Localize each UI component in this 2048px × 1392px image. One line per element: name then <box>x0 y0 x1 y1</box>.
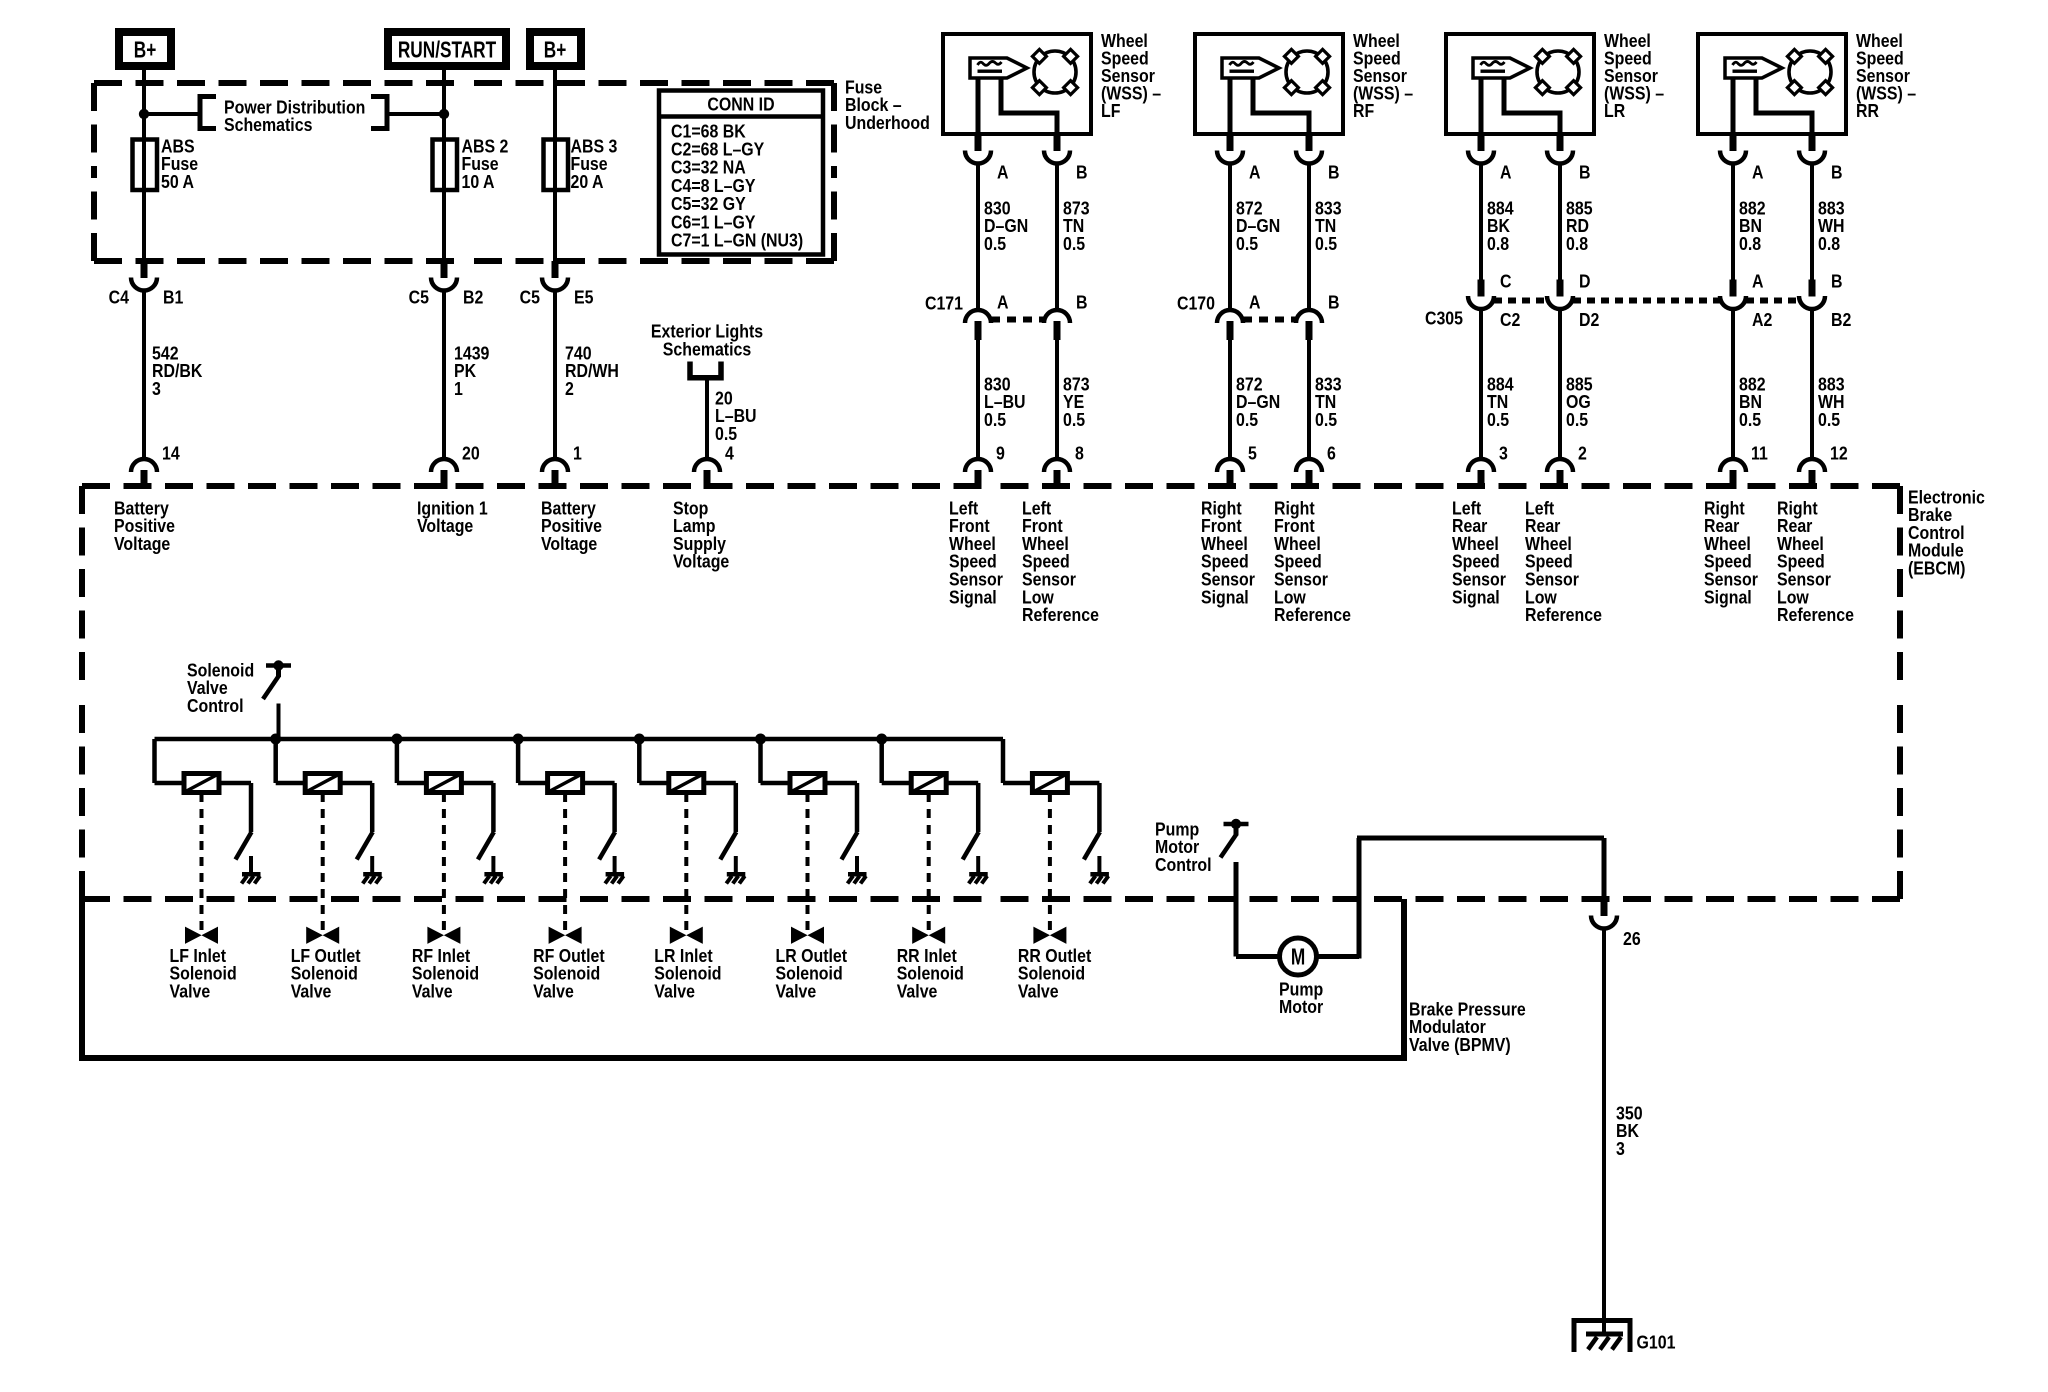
svg-text:0.5: 0.5 <box>984 409 1006 430</box>
node label: RR wheel speed sensor signal <box>1704 497 1758 607</box>
wire from solenoid valve control switch to bus <box>277 704 281 740</box>
svg-text:B1: B1 <box>163 286 184 307</box>
svg-text:LR: LR <box>1604 100 1626 121</box>
svg-text:0.5: 0.5 <box>1315 233 1337 254</box>
label: RR Inlet Solenoid Valve <box>897 945 964 1002</box>
ground at RR Inlet driver <box>969 856 988 884</box>
solenoid coil LF Inlet <box>184 774 219 793</box>
node label: LF wheel speed sensor low reference <box>1022 497 1099 625</box>
off-page reference brackets: Power Distribution Schematics <box>200 96 387 135</box>
dashed wire from LR Outlet coil to valve <box>806 793 810 933</box>
power terminal RUN/START <box>388 32 506 66</box>
dashed wire from RF Outlet coil to valve <box>563 793 567 933</box>
solenoid coil LR Outlet <box>790 774 825 793</box>
EBCM pin 9 connector <box>965 442 1005 489</box>
svg-text:26: 26 <box>1623 928 1641 949</box>
wire branch to LR Inlet solenoid coil <box>639 739 669 783</box>
svg-text:1: 1 <box>573 442 582 463</box>
svg-text:2: 2 <box>565 378 574 399</box>
connector pin A below WSS-LR <box>1468 134 1511 183</box>
wire ABS 3 fuse to connector C5 <box>553 190 557 261</box>
svg-text:Voltage: Voltage <box>417 515 473 536</box>
ground at LF Outlet driver <box>363 856 382 884</box>
svg-text:A: A <box>1752 270 1763 291</box>
svg-text:0.5: 0.5 <box>1739 409 1761 430</box>
svg-text:1: 1 <box>454 378 463 399</box>
solenoid coil RR Inlet <box>911 774 946 793</box>
valve symbol LR Inlet solenoid valve <box>670 928 702 944</box>
label: Pump Motor Control <box>1155 818 1212 875</box>
svg-text:C171: C171 <box>925 292 963 313</box>
svg-text:3: 3 <box>152 378 161 399</box>
svg-text:Control: Control <box>1155 854 1212 875</box>
svg-text:20 A: 20 A <box>571 171 604 192</box>
wire ABS 2 fuse to connector C5 <box>442 190 446 261</box>
wire 872 D–GN to pin 5 <box>1230 339 1280 459</box>
wire branch to LR Outlet solenoid coil <box>761 739 791 783</box>
svg-text:0.8: 0.8 <box>1566 233 1588 254</box>
switch blade LR Outlet driver <box>842 832 858 860</box>
svg-text:LF: LF <box>1101 100 1120 121</box>
svg-text:(EBCM): (EBCM) <box>1908 557 1965 578</box>
svg-text:Valve: Valve <box>654 980 695 1001</box>
svg-text:8: 8 <box>1075 442 1084 463</box>
svg-text:Reference: Reference <box>1777 604 1854 625</box>
wire from RUN/START to ABS 2 fuse <box>442 66 446 140</box>
svg-text:B+: B+ <box>544 38 567 63</box>
EBCM pin 12 connector <box>1799 442 1848 489</box>
node label: LR wheel speed sensor signal <box>1452 497 1506 607</box>
svg-text:Motor: Motor <box>1279 996 1323 1017</box>
wire from LR Outlet coil to driver switch <box>825 783 857 832</box>
connector C305 pin C/C2 <box>1468 270 1520 330</box>
label: RR Outlet Solenoid Valve <box>1018 945 1092 1002</box>
pump motor M <box>1280 938 1317 975</box>
wire branch to RF Outlet solenoid coil <box>518 739 548 783</box>
wire 20 L-BU 0.5 (stop lamp supply) <box>707 380 757 459</box>
svg-text:A: A <box>997 291 1008 312</box>
switch blade RF Inlet driver <box>478 832 494 860</box>
wire 883 WH from WSS-RR B <box>1812 163 1845 280</box>
switch blade RR Inlet driver <box>963 832 979 860</box>
svg-text:Valve: Valve <box>412 980 453 1001</box>
switch blade RR Outlet driver <box>1084 832 1100 860</box>
wire branch to RR Outlet solenoid coil <box>1003 739 1032 783</box>
valve symbol LR Outlet solenoid valve <box>792 928 824 944</box>
wire 830 D–GN from WSS-LF A <box>978 163 1028 310</box>
svg-text:0.5: 0.5 <box>715 423 737 444</box>
label: LF Inlet Solenoid Valve <box>170 945 237 1002</box>
node label: Battery Positive Voltage <box>114 497 175 554</box>
svg-text:0.5: 0.5 <box>984 233 1006 254</box>
connector pin B below WSS-LR <box>1547 134 1590 183</box>
svg-text:C5: C5 <box>409 286 430 307</box>
svg-text:A: A <box>1752 161 1763 182</box>
connector C4/B1 at fuse block output <box>109 261 184 308</box>
svg-text:6: 6 <box>1327 442 1336 463</box>
wheel speed sensor WSS-RF <box>1195 34 1343 134</box>
svg-text:Control: Control <box>187 695 244 716</box>
wire 883 WH to pin 12 <box>1812 308 1845 459</box>
dashed wire from LF Inlet coil to valve <box>200 793 204 933</box>
svg-text:0.5: 0.5 <box>1236 409 1258 430</box>
node junction dot RF Inlet branch <box>391 734 402 745</box>
fuse ABS 2 Fuse 10 A <box>433 135 509 192</box>
svg-text:Valve: Valve <box>1018 980 1059 1001</box>
connector C305 pin D/D2 <box>1547 270 1599 330</box>
svg-text:D2: D2 <box>1579 309 1599 330</box>
svg-text:0.8: 0.8 <box>1487 233 1509 254</box>
connector C305 label <box>1425 307 1463 328</box>
svg-text:A2: A2 <box>1752 309 1772 330</box>
connector pin A below WSS-RR <box>1720 134 1763 183</box>
EBCM pin 11 connector <box>1720 442 1768 489</box>
label: RF Outlet Solenoid Valve <box>533 945 605 1002</box>
dashed wire from RF Inlet coil to valve <box>442 793 446 933</box>
node label: Stop Lamp Supply Voltage <box>673 497 729 572</box>
wire from LF Inlet coil to driver switch <box>219 783 251 832</box>
wheel speed sensor WSS-LF <box>943 34 1091 134</box>
svg-text:0.8: 0.8 <box>1739 233 1761 254</box>
wire from pump motor control switch to pump motor <box>1236 862 1280 957</box>
EBCM pin 4 connector <box>694 442 734 489</box>
wire branch to RR Inlet solenoid coil <box>882 739 912 783</box>
valve symbol RF Inlet solenoid valve <box>428 928 460 944</box>
node label: Battery Positive Voltage 2 <box>541 497 602 554</box>
wire 885 OG to pin 2 <box>1560 308 1593 459</box>
svg-text:A: A <box>1249 161 1260 182</box>
svg-text:3: 3 <box>1616 1138 1625 1159</box>
solenoid coil RF Inlet <box>426 774 461 793</box>
in-line connector C171 pin B <box>1044 291 1087 340</box>
svg-text:B: B <box>1579 161 1590 182</box>
svg-text:2: 2 <box>1578 442 1587 463</box>
power terminal B+ (battery positive) 2 <box>530 32 581 66</box>
EBCM pin 8 connector <box>1044 442 1084 489</box>
svg-text:B: B <box>1076 161 1087 182</box>
wire 830 L–BU to pin 9 <box>978 339 1026 459</box>
solenoid coil RF Outlet <box>548 774 583 793</box>
svg-text:Schematics: Schematics <box>663 338 751 359</box>
svg-text:Valve: Valve <box>897 980 938 1001</box>
node label: RR wheel speed sensor low reference <box>1777 497 1854 625</box>
label: Wheel Speed Sensor (WSS) - LR <box>1604 30 1664 122</box>
svg-text:B: B <box>1831 161 1842 182</box>
svg-text:Underhood: Underhood <box>845 112 930 133</box>
svg-text:20: 20 <box>462 442 480 463</box>
solenoid coil LF Outlet <box>305 774 340 793</box>
dashed connector link C170 <box>1243 317 1296 323</box>
svg-text:M: M <box>1291 945 1305 970</box>
svg-text:Signal: Signal <box>1704 586 1752 607</box>
svg-text:Reference: Reference <box>1525 604 1602 625</box>
node label: Ignition 1 Voltage <box>417 497 488 536</box>
fuse ABS 3 Fuse 20 A <box>544 135 618 192</box>
ground at RF Inlet driver <box>484 856 503 884</box>
fuse ABS Fuse 50 A <box>133 135 199 192</box>
svg-text:B2: B2 <box>1831 309 1851 330</box>
label: Wheel Speed Sensor (WSS) - RF <box>1353 30 1413 122</box>
svg-text:C7=1 L–GN (NU3): C7=1 L–GN (NU3) <box>671 229 803 250</box>
connector pin B below WSS-RR <box>1799 134 1842 183</box>
svg-text:A: A <box>1500 161 1511 182</box>
wire 882 BN to pin 11 <box>1733 308 1766 459</box>
valve symbol LF Outlet solenoid valve <box>307 928 339 944</box>
node label: LF wheel speed sensor signal <box>949 497 1003 607</box>
EBCM pin 14 connector <box>131 442 180 489</box>
ground at RF Outlet driver <box>605 856 624 884</box>
node label: LR wheel speed sensor low reference <box>1525 497 1602 625</box>
ground at RR Outlet driver <box>1090 856 1109 884</box>
svg-text:B: B <box>1831 270 1842 291</box>
ground G101 <box>1574 1321 1676 1353</box>
svg-text:C305: C305 <box>1425 307 1463 328</box>
label: LF Outlet Solenoid Valve <box>291 945 361 1002</box>
dashed connector link C171 <box>991 317 1044 323</box>
svg-text:Reference: Reference <box>1022 604 1099 625</box>
switch blade RF Outlet driver <box>599 832 615 860</box>
svg-text:C: C <box>1500 270 1511 291</box>
svg-text:4: 4 <box>725 442 734 463</box>
fuse block underhood dashed boundary <box>94 83 834 261</box>
label: Wheel Speed Sensor (WSS) - RR <box>1856 30 1916 122</box>
CONN ID table <box>659 91 823 255</box>
svg-text:50 A: 50 A <box>161 171 194 192</box>
node label: RF wheel speed sensor signal <box>1201 497 1255 607</box>
wire from RR Outlet coil to driver switch <box>1067 783 1099 832</box>
svg-text:C2: C2 <box>1500 309 1520 330</box>
in-line connector C170 pin B <box>1296 291 1339 340</box>
svg-text:A: A <box>997 161 1008 182</box>
solenoid coil LR Inlet <box>669 774 704 793</box>
dashed connector link C305 <box>1494 298 1799 304</box>
dashed wire from RR Inlet coil to valve <box>927 793 931 933</box>
svg-text:5: 5 <box>1248 442 1257 463</box>
connector pin B below WSS-LF <box>1044 134 1087 183</box>
EBCM pin 6 connector <box>1296 442 1336 489</box>
off-page reference: Exterior Lights Schematics <box>651 320 763 378</box>
ground at LR Inlet driver <box>726 856 745 884</box>
svg-text:Valve: Valve <box>776 980 817 1001</box>
wire from LF Outlet coil to driver switch <box>340 783 372 832</box>
connector pin 26 <box>1591 899 1641 949</box>
svg-text:Valve: Valve <box>170 980 211 1001</box>
connector C305 pin B/B2 <box>1799 270 1851 330</box>
node junction dot LF Outlet branch <box>270 734 281 745</box>
wheel speed sensor WSS-LR <box>1446 34 1594 134</box>
connector pin A below WSS-LF <box>965 134 1008 183</box>
EBCM pin 20 connector <box>431 442 480 489</box>
connector pin B below WSS-RF <box>1296 134 1339 183</box>
svg-text:C5: C5 <box>520 286 541 307</box>
svg-text:Schematics: Schematics <box>224 114 312 135</box>
label: Pump Motor <box>1279 978 1323 1017</box>
svg-text:10 A: 10 A <box>462 171 495 192</box>
svg-text:0.5: 0.5 <box>1566 409 1588 430</box>
in-line connector C171 pin A <box>925 291 1009 340</box>
EBCM pin 2 connector <box>1547 442 1587 489</box>
label: Electronic Brake Control Module (EBCM) <box>1908 486 1985 579</box>
svg-text:RF: RF <box>1353 100 1374 121</box>
wire 542 RD/BK 3 <box>144 289 203 459</box>
wire 740 RD/WH 2 <box>555 289 619 459</box>
wire 873 TN from WSS-LF B <box>1057 163 1090 310</box>
svg-text:0.5: 0.5 <box>1818 409 1840 430</box>
svg-text:B: B <box>1076 291 1087 312</box>
wire 873 YE to pin 8 <box>1057 339 1090 459</box>
svg-text:G101: G101 <box>1637 1331 1676 1352</box>
svg-text:Signal: Signal <box>1201 586 1249 607</box>
label: Solenoid Valve Control <box>187 659 254 716</box>
switch: solenoid valve control driver <box>263 660 291 699</box>
ground at LF Inlet driver <box>242 856 261 884</box>
svg-text:A: A <box>1249 291 1260 312</box>
node junction dot on RUN/START wire <box>439 109 449 119</box>
label: Brake Pressure Modulator Valve (BPMV) <box>1409 998 1526 1055</box>
wire ABS fuse to connector C4 <box>142 190 146 261</box>
wire 882 BN from WSS-RR A <box>1733 163 1766 280</box>
svg-text:0.5: 0.5 <box>1063 233 1085 254</box>
switch: pump motor control driver <box>1221 819 1249 858</box>
label: LR Outlet Solenoid Valve <box>776 945 848 1002</box>
wire from RF Outlet coil to driver switch <box>583 783 615 832</box>
svg-text:14: 14 <box>162 442 180 463</box>
connector C305 pin A/A2 <box>1720 270 1772 330</box>
svg-text:0.8: 0.8 <box>1818 233 1840 254</box>
svg-text:Voltage: Voltage <box>541 533 597 554</box>
node junction dot RR Inlet branch <box>876 734 887 745</box>
solenoid supply bus wire <box>155 737 1004 742</box>
svg-text:9: 9 <box>996 442 1005 463</box>
svg-text:11: 11 <box>1751 442 1768 463</box>
switch blade LF Outlet driver <box>357 832 373 860</box>
in-line connector C170 pin A <box>1177 291 1261 340</box>
svg-text:B+: B+ <box>134 38 157 63</box>
valve symbol RR Outlet solenoid valve <box>1034 928 1066 944</box>
svg-text:C170: C170 <box>1177 292 1215 313</box>
svg-text:12: 12 <box>1830 442 1848 463</box>
label: LR Inlet Solenoid Valve <box>654 945 721 1002</box>
svg-text:C4: C4 <box>109 286 130 307</box>
wire from B+ 2 to ABS 3 fuse <box>553 66 557 140</box>
valve symbol LF Inlet solenoid valve <box>186 928 218 944</box>
svg-text:0.5: 0.5 <box>1487 409 1509 430</box>
svg-text:Valve (BPMV): Valve (BPMV) <box>1409 1034 1511 1055</box>
ground at LR Outlet driver <box>848 856 867 884</box>
node label: RF wheel speed sensor low reference <box>1274 497 1351 625</box>
wire 884 BK from WSS-LR A <box>1481 163 1514 280</box>
svg-text:Valve: Valve <box>533 980 574 1001</box>
wire 872 D–GN from WSS-RF A <box>1230 163 1280 310</box>
wire 885 RD from WSS-LR B <box>1560 163 1593 280</box>
connector C5/E5 at fuse block output <box>520 261 594 308</box>
node junction dot RF Outlet branch <box>513 734 524 745</box>
svg-text:Voltage: Voltage <box>673 551 729 572</box>
svg-text:0.5: 0.5 <box>1315 409 1337 430</box>
label: RF Inlet Solenoid Valve <box>412 945 479 1002</box>
svg-text:RUN/START: RUN/START <box>398 38 497 63</box>
svg-text:3: 3 <box>1499 442 1508 463</box>
Brake Pressure Modulator Valve (BPMV) boundary <box>82 899 1404 1058</box>
wire 1439 PK 1 <box>444 289 489 459</box>
svg-text:Valve: Valve <box>291 980 332 1001</box>
EBCM pin 5 connector <box>1217 442 1257 489</box>
svg-text:Signal: Signal <box>949 586 997 607</box>
dashed wire from LR Inlet coil to valve <box>684 793 688 933</box>
wire 833 TN from WSS-RF B <box>1309 163 1342 310</box>
wire from B+ to ABS fuse <box>142 66 146 140</box>
wire to Power Distribution Schematics <box>144 112 444 116</box>
dashed wire from LF Outlet coil to valve <box>321 793 325 933</box>
svg-text:RR: RR <box>1856 100 1879 121</box>
solenoid coil RR Outlet <box>1032 774 1067 793</box>
EBCM pin 3 connector <box>1468 442 1508 489</box>
svg-text:0.5: 0.5 <box>1236 233 1258 254</box>
wire 350 BK 3 to ground <box>1604 927 1643 1334</box>
switch blade LF Inlet driver <box>236 832 252 860</box>
wire from RF Inlet coil to driver switch <box>461 783 493 832</box>
label: Fuse Block - Underhood <box>845 76 930 133</box>
label: Wheel Speed Sensor (WSS) - LF <box>1101 30 1161 122</box>
svg-text:Signal: Signal <box>1452 586 1500 607</box>
EBCM pin 1 connector <box>542 442 582 489</box>
svg-text:B: B <box>1328 161 1339 182</box>
wire from LR Inlet coil to driver switch <box>704 783 736 832</box>
svg-text:D: D <box>1579 270 1590 291</box>
wire from pump motor to EBCM pin 26 <box>1317 838 1605 959</box>
connector C5/B2 at fuse block output <box>409 261 484 308</box>
dashed wire from RR Outlet coil to valve <box>1048 793 1052 933</box>
svg-text:E5: E5 <box>574 286 594 307</box>
svg-text:B: B <box>1328 291 1339 312</box>
wire branch to LF Outlet solenoid coil <box>276 739 306 783</box>
valve symbol RR Inlet solenoid valve <box>913 928 945 944</box>
wheel speed sensor WSS-RR <box>1698 34 1846 134</box>
Electronic Brake Control Module (EBCM) dashed boundary <box>82 486 1900 899</box>
wire branch to LF Inlet solenoid coil <box>155 739 185 783</box>
wire 884 TN to pin 3 <box>1481 308 1514 459</box>
svg-text:B2: B2 <box>463 286 483 307</box>
svg-text:Reference: Reference <box>1274 604 1351 625</box>
wire 833 TN to pin 6 <box>1309 339 1342 459</box>
node junction dot on B+ wire <box>139 109 149 119</box>
connector pin A below WSS-RF <box>1217 134 1260 183</box>
power terminal B+ (battery positive) <box>119 32 171 66</box>
node junction dot LR Outlet branch <box>755 734 766 745</box>
svg-text:Voltage: Voltage <box>114 533 170 554</box>
switch blade LR Inlet driver <box>720 832 736 860</box>
svg-text:CONN ID: CONN ID <box>707 93 774 114</box>
node junction dot LR Inlet branch <box>634 734 645 745</box>
wire branch to RF Inlet solenoid coil <box>397 739 427 783</box>
wire from RR Inlet coil to driver switch <box>946 783 978 832</box>
valve symbol RF Outlet solenoid valve <box>549 928 581 944</box>
svg-text:0.5: 0.5 <box>1063 409 1085 430</box>
